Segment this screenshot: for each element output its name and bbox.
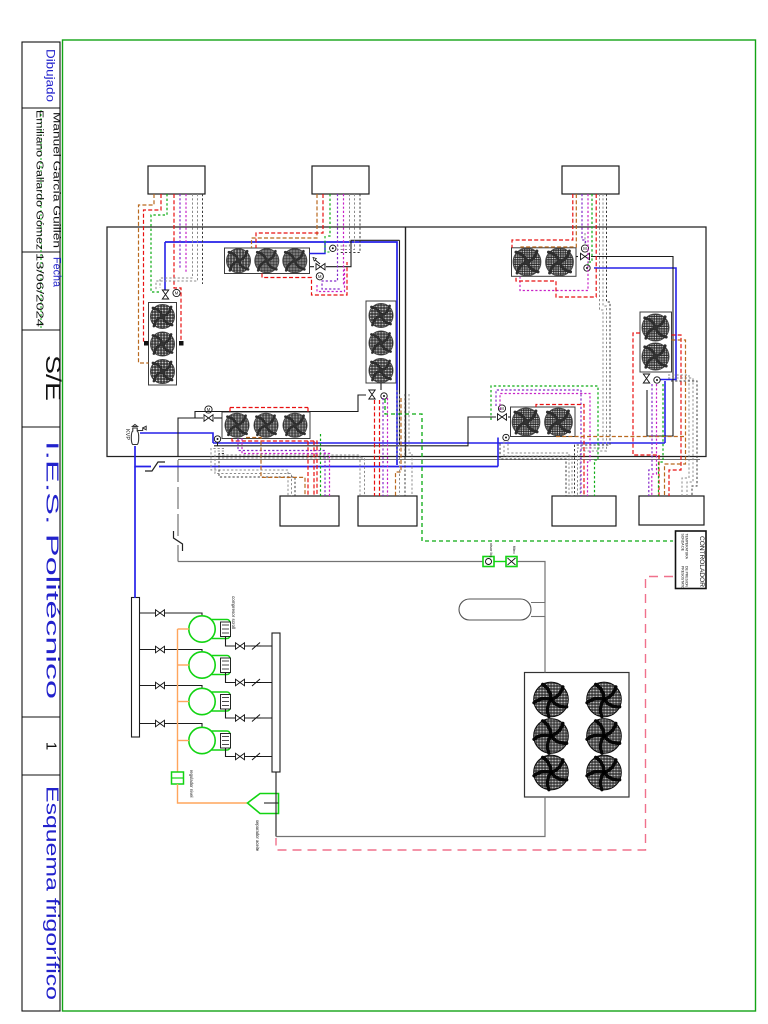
sensor circle E3	[214, 436, 220, 442]
svg-text:Manuel García Guillén: Manuel García Guillén	[51, 112, 62, 248]
wire magenta E5 loop	[520, 194, 588, 291]
compressor C4	[189, 727, 231, 753]
control wire pink condenser	[276, 577, 673, 851]
evaporator E4	[366, 301, 396, 383]
wire violet E7 drop	[580, 390, 582, 496]
line break symbol suction	[145, 462, 165, 472]
svg-text:Emiliano Gallardo Gómez: Emiliano Gallardo Gómez	[34, 110, 45, 250]
sensor wire green E3	[320, 434, 322, 496]
fan wire brown E3	[246, 438, 305, 497]
check valve compressor 4	[251, 753, 261, 760]
defrost wire red E6 right	[669, 335, 681, 496]
check valve compressor 2	[251, 679, 261, 686]
sensor circle E1	[330, 245, 336, 251]
wire red E4 b	[379, 400, 381, 496]
junction box JB5	[358, 496, 417, 526]
cold room walls	[107, 227, 706, 457]
expansion valve E4	[369, 390, 375, 399]
suction pipe compressor 4	[140, 724, 203, 728]
discharge pipe compressor 1	[226, 637, 273, 647]
pipe E3 to E4 valve	[195, 395, 366, 418]
oil return line	[178, 784, 248, 803]
oil level regulator	[172, 772, 184, 784]
title block frame	[22, 42, 60, 1011]
liquid line riser	[177, 460, 179, 562]
wire connector E2 right	[179, 341, 184, 346]
junction box JB3	[562, 166, 619, 194]
svg-text:13/06/2024: 13/06/2024	[34, 253, 45, 328]
svg-text:Fecha: Fecha	[51, 257, 63, 288]
junction box JB2	[312, 166, 369, 194]
fan wire brown E6	[665, 340, 686, 496]
KVP valve	[131, 425, 146, 445]
wire violet box1	[179, 194, 181, 268]
defrost loop red E5	[516, 194, 596, 297]
svg-text:separador aceite: separador aceite	[255, 820, 260, 852]
wire black E1	[340, 194, 360, 253]
evaporator E6	[640, 312, 672, 372]
svg-text:regulador nivel: regulador nivel	[189, 770, 194, 798]
wire red E3 to JB4 b	[313, 441, 315, 496]
wire black E3	[219, 454, 295, 497]
sensor wire green E2 valve	[151, 194, 167, 292]
junction box JB4	[280, 496, 339, 526]
check valve compressor 3	[251, 715, 261, 722]
sensor wire green E5 valve	[588, 194, 592, 268]
oil line stub compressor 3	[178, 701, 190, 703]
discharge pipe compressor 4	[226, 748, 273, 757]
wire red E4 a	[374, 400, 376, 496]
evaporator E3	[222, 412, 310, 439]
expansion valve E5	[581, 253, 590, 259]
svg-text:Esquema frigorífico: Esquema frigorífico	[43, 786, 63, 1000]
wire magenta E1 drop	[343, 194, 345, 285]
defrost wire red E6 left	[633, 333, 659, 496]
svg-text:S/E: S/E	[41, 355, 64, 401]
wire black E6	[671, 381, 697, 496]
discharge header	[272, 633, 280, 772]
oil separator	[248, 794, 279, 814]
TXV arrow E1	[314, 259, 320, 264]
suction pipe compressor 2	[140, 650, 203, 653]
discharge valve compressor 2	[236, 679, 245, 685]
sensor wire green E7	[491, 386, 598, 496]
evaporator E1	[225, 248, 310, 274]
wire gray E4 stub	[396, 390, 398, 461]
discharge pipe compressor 3	[226, 709, 273, 718]
svg-text:SONDA DE: SONDA DE	[681, 534, 685, 552]
fan power wire brown E2	[139, 194, 155, 363]
wire magenta box1	[185, 194, 187, 272]
wire gray box1 b	[156, 194, 198, 290]
svg-text:KVP: KVP	[124, 429, 130, 440]
motor circle E5	[581, 245, 588, 252]
sensor circle E7	[503, 434, 509, 440]
discharge pipe compressor 2	[226, 673, 273, 683]
defrost loop red E1	[262, 262, 347, 295]
wire violet E6	[649, 384, 652, 496]
suction drop to header	[134, 467, 136, 599]
room divider wall	[405, 227, 407, 457]
wire gray E3 a	[211, 449, 288, 497]
liquid header under rooms	[178, 459, 700, 461]
oil line stub compressor 4	[178, 740, 190, 742]
oil line stub compressor 2	[178, 664, 190, 666]
svg-text:I.E.S. Politécnico: I.E.S. Politécnico	[43, 441, 63, 699]
pipe E5 valve to E6	[591, 257, 673, 437]
sensor wire green E6	[659, 384, 664, 496]
evaporator E7	[511, 407, 576, 437]
wire violet E5 to motor	[582, 194, 586, 245]
wire gray E3 to JB5 a	[218, 455, 360, 496]
sensor drop E5	[584, 233, 586, 244]
pipe riser to E3 valve	[178, 418, 203, 457]
svg-text:compresor scroll: compresor scroll	[231, 596, 236, 629]
green wire to sensor E1	[325, 236, 330, 252]
junction box JB1	[148, 166, 205, 194]
wire red E1 top	[256, 194, 323, 248]
motor circle E1	[316, 273, 323, 280]
receiver top stub	[531, 603, 545, 618]
wire gray E6 a	[668, 375, 689, 496]
suction riser E7	[497, 438, 499, 467]
pipe E4 bank to valve	[380, 383, 382, 390]
fan wire brown E7 bottom	[556, 436, 686, 438]
wire violet E1 loop	[322, 194, 341, 289]
suction valve V2	[156, 646, 165, 652]
suction valve V1	[156, 610, 165, 616]
solenoid valve	[506, 557, 517, 567]
expansion valve E2	[162, 290, 168, 299]
expansion valve E1	[316, 264, 325, 270]
condenser to receiver pipe	[544, 617, 546, 673]
wire gray E7 a	[508, 440, 569, 497]
svg-text:visor liq.: visor liq.	[489, 543, 494, 558]
discharge line to condenser	[276, 797, 545, 837]
defrost stub E3 left	[229, 408, 231, 413]
wire violet E3	[238, 439, 325, 497]
main suction line lower	[135, 446, 498, 467]
junction box JB6	[552, 496, 616, 526]
wire magenta E3	[242, 439, 330, 497]
fan wire brown E4	[396, 398, 402, 496]
motor circle E4	[381, 393, 387, 399]
suction header	[132, 598, 140, 738]
check valve compressor 1	[251, 643, 261, 650]
suction line y444	[213, 442, 665, 444]
suction branch KVP to E3	[140, 433, 213, 443]
pipe E1 to TXV	[310, 266, 314, 268]
suction riser E6	[664, 381, 666, 443]
wire magenta E4	[387, 398, 389, 496]
wire gray E5 a	[578, 194, 604, 496]
pipe E5 to valve	[576, 256, 578, 258]
pipe E3 valve to bank	[214, 417, 222, 419]
sensor wire green E1	[326, 194, 330, 236]
wire black E7	[500, 444, 566, 497]
liquid feed pipe in rooms	[214, 417, 496, 446]
compressor C3	[189, 688, 231, 714]
defrost wire red E3 top	[230, 407, 308, 409]
wire magenta E6	[652, 384, 657, 496]
wire violet E4	[382, 398, 384, 496]
svg-text:Dibujado: Dibujado	[44, 49, 58, 102]
suction stub E1	[310, 243, 326, 254]
discharge valve compressor 3	[236, 715, 245, 721]
wire gray E1 b	[337, 194, 355, 250]
control wire green to controller	[385, 399, 673, 541]
wire gray E3 b	[215, 451, 292, 496]
condenser unit	[525, 673, 630, 798]
defrost loop red E3	[232, 439, 317, 497]
liquid feed stub E3	[217, 442, 219, 446]
wire gray E4 b	[409, 394, 412, 496]
pipe E1 valve to divider	[326, 240, 400, 266]
motor circle E3	[205, 406, 212, 413]
svg-text:TEMPERATURA: TEMPERATURA	[685, 534, 689, 560]
liquid receiver	[459, 599, 531, 620]
wire gray E3 to JB5 b	[222, 458, 365, 496]
wire gray box1 a	[160, 194, 193, 288]
expansion valve E7	[498, 414, 507, 420]
oil line stub compressor 1	[178, 628, 190, 630]
suction valve V3	[156, 682, 165, 688]
defrost stub E3 right	[307, 408, 309, 413]
suction pipe compressor 1	[140, 613, 203, 616]
wire violet E7 top	[496, 390, 581, 406]
sensor circle E5	[584, 265, 590, 271]
line break symbol liquid	[173, 531, 183, 551]
wire black box1	[202, 194, 204, 284]
pipe E7 valve to bank	[508, 416, 511, 418]
wire black E5	[575, 194, 611, 496]
suction riser E2	[164, 242, 166, 291]
expansion valve E3	[204, 415, 213, 421]
discharge valve compressor 1	[236, 643, 245, 649]
defrost wire red E2 right	[174, 194, 181, 341]
wire gray E7 b	[504, 442, 572, 497]
defrost wire red E7	[536, 405, 584, 497]
svg-text:filtro: filtro	[512, 546, 517, 554]
compressor C1	[189, 616, 231, 642]
liquid feed riser at divider	[399, 240, 401, 445]
wire gray E5 b	[580, 194, 606, 496]
svg-text:CONTROLADOR: CONTROLADOR	[698, 536, 704, 588]
wire magenta E7	[500, 394, 590, 497]
fan power wire brown E1	[252, 194, 318, 248]
wire gray E6 b	[668, 378, 693, 496]
liquid line green segment	[494, 561, 506, 563]
fan power wire brown E5	[521, 194, 576, 248]
motor circle E2	[173, 289, 180, 296]
evaporator E2	[149, 303, 177, 386]
controller box	[676, 531, 707, 589]
wire gray E4 a	[399, 394, 401, 496]
suction valve V4	[156, 720, 165, 726]
wire connector E2 left	[144, 341, 149, 346]
suction pipe compressor 3	[140, 686, 203, 689]
suction line E6 to E5	[594, 268, 676, 380]
wire red E5 top	[512, 194, 573, 248]
compressor C2	[189, 652, 231, 678]
svg-text:PRESOSTATO: PRESOSTATO	[681, 566, 685, 589]
sight glass	[483, 557, 494, 567]
motor circle E7	[498, 405, 505, 412]
motor circle E6	[654, 377, 660, 383]
wire black E4	[404, 394, 406, 496]
liquid line left	[178, 561, 483, 563]
discharge valve compressor 4	[236, 753, 245, 759]
svg-text:1: 1	[43, 742, 60, 750]
defrost wire red E2 left	[144, 194, 162, 341]
svg-text:DE PRESION: DE PRESION	[685, 566, 689, 587]
wire gray E1 a	[337, 194, 350, 246]
evaporator E5	[512, 248, 577, 276]
wire red E3 to JB4 a	[307, 441, 309, 496]
discharge line down	[275, 772, 277, 837]
junction box JB7	[639, 496, 704, 525]
expansion valve E6	[643, 374, 649, 383]
main suction line upper	[165, 242, 397, 465]
wire magenta E1 loop	[317, 268, 345, 292]
oil equalization line	[177, 629, 179, 772]
title block green dotted divider	[40, 110, 42, 328]
liquid line right	[518, 562, 546, 603]
receiver bottom stub	[531, 616, 545, 618]
